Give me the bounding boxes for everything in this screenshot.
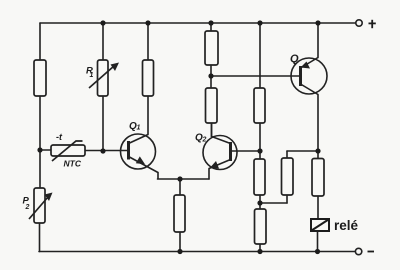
svg-text:NTC: NTC (64, 159, 82, 169)
svg-text:Q: Q (290, 53, 299, 65)
svg-text:1: 1 (137, 125, 141, 132)
svg-text:2: 2 (202, 137, 207, 144)
svg-text:-t: -t (56, 132, 63, 142)
svg-text:1: 1 (90, 72, 94, 79)
svg-text:relé: relé (334, 218, 359, 233)
svg-text:2: 2 (25, 204, 30, 211)
